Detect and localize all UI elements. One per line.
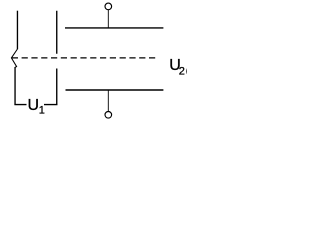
svg-text:1: 1 [39, 105, 45, 117]
terminal T2 (bottom plate lead and circle) [105, 90, 112, 118]
svg-text:U: U [28, 97, 40, 114]
label U2 (clipped at right edge) [169, 57, 192, 78]
svg-text:0: 0 [186, 66, 187, 78]
anode A (vertical electrode with beam hole) [56, 11, 58, 105]
cathode K (left electrode with chevron tip) [11, 11, 17, 105]
wire U1 loop (bottom connection cathode-anode) [14, 104, 57, 106]
top deflection plate P1 [65, 27, 163, 29]
bottom deflection plate P2 [66, 89, 164, 91]
terminal T1 (top plate lead and circle) [105, 3, 112, 28]
label U1 [27, 97, 45, 117]
beam axis (dashed electron trajectory) [12, 57, 155, 59]
svg-text:2: 2 [179, 66, 185, 78]
